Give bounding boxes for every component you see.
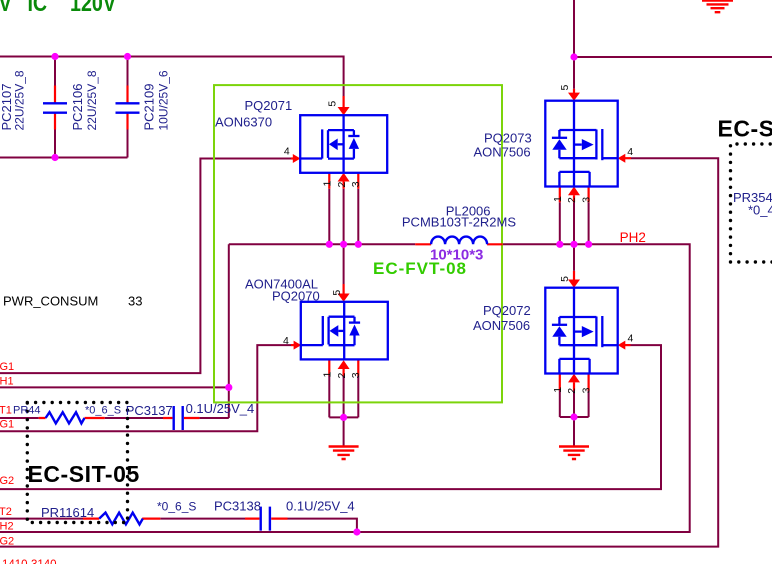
svg-text:PC2109: PC2109 [142, 84, 157, 131]
pin arrow PQ2073 pin5 down [568, 93, 580, 101]
pin arrow PQ2070 pin5 down [338, 294, 350, 302]
svg-text:4: 4 [283, 335, 289, 347]
node junction dot H1 tee [225, 384, 232, 391]
dotted box EC-SIT-05 [27, 403, 127, 523]
wire capacitor PC2109 branch [127, 57, 129, 158]
svg-text:PC3137: PC3137 [126, 403, 173, 418]
wire LG1 row to PQ2070 gate [0, 345, 291, 431]
svg-text:1: 1 [322, 372, 334, 378]
svg-text:1410: 1410 [2, 559, 28, 564]
pin red stubs capacitor PC2109 [126, 86, 128, 130]
pin red segments inductor PL2006 leads [415, 243, 502, 245]
node junction dot PQ2070 ground node [340, 414, 347, 421]
svg-text:1: 1 [552, 387, 564, 393]
pin red stubs PQ2072 pins 1 2 3 [560, 374, 589, 391]
pin red stubs capacitor PC2106 [54, 86, 56, 130]
svg-text:22U/25V_8: 22U/25V_8 [13, 70, 27, 130]
pin arrow PQ2070 pin2 up [338, 360, 350, 369]
svg-text:IC: IC [27, 0, 47, 17]
svg-text:10U/25V_6: 10U/25V_6 [156, 70, 170, 130]
svg-text:PQ2071: PQ2071 [245, 98, 293, 113]
svg-text:5V: 5V [0, 0, 12, 17]
svg-text:G1: G1 [0, 419, 14, 431]
pin arrow PQ2072 pin5 down [568, 280, 580, 288]
svg-text:T2: T2 [0, 506, 12, 518]
node junction dot PQ2072 ground node [570, 413, 577, 420]
transistor PQ2073 (N-MOSFET with body diode, AON7506) [545, 101, 617, 187]
pin red stubs PQ2070 pins 1 2 3 [329, 360, 358, 375]
svg-text:PQ2073: PQ2073 [484, 130, 532, 145]
svg-text:3: 3 [350, 372, 362, 378]
resistor PR44 zigzag [46, 412, 85, 423]
pin red stub PQ2071 pin4 [291, 157, 294, 159]
node junction dot top right [570, 53, 577, 60]
pin arrow PQ2070 pin4 right [294, 341, 302, 350]
ground symbol top right partially cut [702, 1, 733, 13]
transistor PQ2071 (N-MOSFET with body diode, AON6370) [300, 115, 387, 173]
svg-text:5: 5 [331, 290, 343, 296]
wire UG1 row to PQ2071 gate [0, 159, 291, 374]
wire top right horizontal [574, 56, 772, 58]
svg-text:*0_6_S: *0_6_S [85, 405, 121, 417]
svg-text:*0_6_S: *0_6_S [157, 500, 196, 514]
svg-text:H2: H2 [0, 521, 14, 533]
capacitor PC2106 plates [43, 103, 67, 112]
svg-text:EC-SIT-05: EC-SIT-05 [28, 461, 140, 487]
wire PQ2073 source pins down to phase [560, 202, 589, 244]
svg-text:G2: G2 [0, 536, 14, 548]
svg-text:*0_4: *0_4 [748, 203, 772, 218]
svg-text:120V: 120V [70, 0, 116, 17]
node junction dots PQ2071 pins on phase wire [326, 241, 333, 248]
wire PQ2073 gate to LG2 row [0, 158, 718, 546]
pin arrow PQ2072 pin2 up [568, 374, 580, 383]
wire PQ2070 source pins to ground node [329, 376, 358, 447]
svg-text:PC3138: PC3138 [214, 499, 261, 514]
pin arrow PQ2071 pin5 down [338, 107, 350, 115]
pin red stub PQ2070 pin4 [291, 344, 294, 346]
svg-text:PCMB103T-2R2MS: PCMB103T-2R2MS [402, 215, 516, 230]
pin red segments resistor PR11614 leads [83, 517, 160, 519]
capacitor PC3138 plates [261, 507, 270, 531]
node junction dot H2 tee [353, 528, 360, 535]
pin red stub PQ2070 pin5 [343, 284, 345, 294]
svg-text:22U/25V_8: 22U/25V_8 [85, 70, 99, 130]
wire phase node PH right segment to PH2 corner and H2 row [0, 244, 690, 532]
svg-text:AON6370: AON6370 [215, 115, 272, 130]
svg-text:4: 4 [284, 146, 290, 158]
pin red stub PQ2072 pin4 [625, 344, 631, 346]
transistor PQ2072 (N-MOSFET with body diode, AON7506) [545, 288, 617, 374]
wire top rail V_IC to PQ2071 drain [0, 57, 344, 97]
pin arrow PQ2072 pin4 left [618, 341, 626, 350]
svg-text:2: 2 [566, 197, 578, 203]
pin red segments capacitor PC3138 leads [245, 517, 288, 519]
wire PQ2072 gate to UG2 row [0, 345, 661, 489]
svg-text:5: 5 [559, 276, 571, 282]
svg-text:33: 33 [128, 294, 142, 309]
svg-text:PR44: PR44 [13, 405, 41, 417]
svg-text:1: 1 [552, 196, 564, 202]
svg-text:PC2106: PC2106 [70, 84, 85, 131]
wire PQ2070 drain from phase [343, 244, 345, 284]
ground symbol below PQ2070 [329, 447, 359, 460]
wire PQ2072 drain from phase [573, 244, 575, 270]
pin red stub PQ2073 pin4 [625, 157, 631, 159]
svg-text:EC-SIT-05: EC-SIT-05 [718, 116, 772, 142]
pin arrow PQ2071 pin2 up [338, 173, 350, 182]
svg-text:3: 3 [581, 387, 593, 393]
svg-text:3140: 3140 [31, 559, 57, 564]
wire H1 row [0, 386, 229, 388]
svg-text:AON7506: AON7506 [474, 145, 531, 160]
wire vertical phase to T1 node [228, 244, 230, 418]
ground symbol below PQ2072 [559, 447, 589, 460]
svg-text:4: 4 [628, 333, 634, 345]
svg-text:5: 5 [559, 85, 571, 91]
capacitor PC3137 plates [174, 406, 183, 430]
svg-text:2: 2 [336, 182, 348, 188]
pin red stub PQ2072 pin5 [573, 271, 575, 280]
wire top right vertical to PQ2073 drain [573, 0, 575, 89]
svg-text:PWR_CONSUM: PWR_CONSUM [3, 294, 98, 309]
wire phase node PH left segment [229, 243, 415, 245]
svg-text:10*10*3: 10*10*3 [430, 247, 483, 264]
transistor PQ2070 (N-MOSFET with body diode, AON7400AL) [301, 302, 388, 360]
pin red stubs PQ2071 pins 1 2 3 [329, 173, 358, 189]
wire PQ2072 source pins to ground node [560, 391, 589, 447]
svg-text:0.1U/25V_4: 0.1U/25V_4 [186, 401, 255, 416]
text V IC 120V top cut [0, 0, 116, 17]
svg-text:2: 2 [566, 388, 578, 394]
svg-text:4: 4 [627, 146, 633, 158]
svg-text:5: 5 [327, 101, 339, 107]
node junction dot top rail cap PC2109 [124, 53, 131, 60]
pin red stub PQ2073 pin5 [573, 89, 575, 93]
svg-text:PQ2072: PQ2072 [483, 303, 531, 318]
svg-text:2: 2 [336, 373, 348, 379]
svg-text:G1: G1 [0, 361, 14, 373]
pin red segments capacitor PC3137 leads [163, 417, 199, 419]
inductor PL2006 humps [431, 237, 487, 245]
dotted box EC-S right edge cut [731, 144, 772, 262]
green function box EC-FVT-08 [214, 85, 502, 402]
capacitor PC2109 plates [116, 103, 140, 112]
pin red stub PQ2071 pin5 [343, 96, 345, 107]
wire bottom rail of input caps [0, 157, 128, 159]
resistor PR11614 zigzag [99, 513, 143, 525]
pin arrow PQ2071 pin4 right [293, 154, 301, 163]
svg-text:PQ2070: PQ2070 [272, 289, 320, 304]
svg-text:AON7506: AON7506 [473, 318, 530, 333]
wire PQ2071 source pins down to phase [329, 189, 358, 245]
pin arrow PQ2073 pin2 up [568, 187, 580, 196]
svg-text:0.1U/25V_4: 0.1U/25V_4 [286, 499, 355, 514]
svg-text:PH2: PH2 [620, 230, 646, 245]
node junction dots PQ2073 pins on phase wire [556, 241, 563, 248]
pin arrow PQ2073 pin4 left [618, 154, 626, 163]
svg-text:3: 3 [350, 181, 362, 187]
svg-text:PR11614: PR11614 [41, 505, 94, 520]
pin red segments resistor PR44 leads [39, 417, 105, 419]
svg-text:1: 1 [322, 181, 334, 187]
wire capacitor PC2106 branch [54, 57, 56, 158]
node junction dot bottom rail [51, 154, 58, 161]
svg-text:H1: H1 [0, 376, 14, 388]
wire T1 row segments [0, 417, 229, 419]
wire T2 row segments [0, 519, 357, 532]
svg-text:3: 3 [581, 197, 593, 203]
svg-text:G2: G2 [0, 475, 14, 487]
pin red stubs PQ2073 pins 1 2 3 [560, 187, 589, 203]
node junction dot top rail cap PC2106 [51, 53, 58, 60]
svg-text:T1: T1 [0, 405, 12, 417]
